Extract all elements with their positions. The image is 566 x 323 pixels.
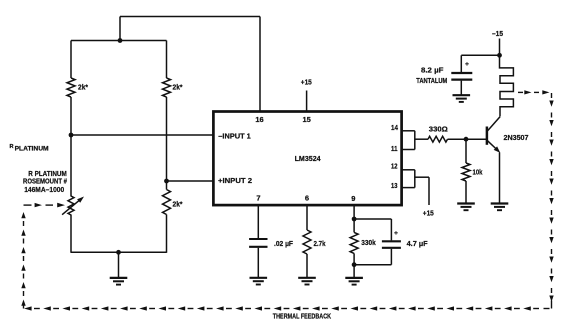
svg-text:+: + — [465, 61, 469, 68]
svg-text:7: 7 — [256, 194, 260, 203]
svg-text:THERMAL FEEDBACK: THERMAL FEEDBACK — [273, 313, 331, 320]
svg-text:2k*: 2k* — [78, 84, 88, 91]
svg-text:–INPUT 1: –INPUT 1 — [218, 132, 251, 141]
svg-text:14: 14 — [391, 123, 399, 132]
svg-text:13: 13 — [391, 181, 398, 190]
svg-text:8.2 µF: 8.2 µF — [421, 66, 444, 75]
svg-text:2k*: 2k* — [173, 201, 183, 208]
svg-text:–15: –15 — [492, 29, 503, 38]
svg-text:12: 12 — [391, 162, 398, 171]
svg-text:+INPUT 2: +INPUT 2 — [218, 176, 252, 185]
svg-text:16: 16 — [255, 115, 263, 124]
svg-text:4.7 µF: 4.7 µF — [407, 239, 429, 248]
svg-text:.02 µF: .02 µF — [274, 239, 294, 248]
svg-text:R: R — [10, 144, 14, 150]
svg-text:2k*: 2k* — [173, 84, 183, 91]
svg-text:2N3507: 2N3507 — [504, 133, 529, 142]
svg-text:330Ω: 330Ω — [429, 125, 448, 134]
svg-text:TANTALUM: TANTALUM — [416, 76, 447, 85]
svg-text:146MA–1000: 146MA–1000 — [24, 185, 64, 194]
svg-text:+: + — [394, 230, 398, 237]
svg-text:11: 11 — [391, 144, 398, 153]
svg-text:10k: 10k — [473, 167, 483, 176]
svg-text:330k: 330k — [361, 238, 376, 247]
svg-text:15: 15 — [303, 115, 311, 124]
svg-text:2.7k: 2.7k — [314, 239, 326, 248]
svg-text:LM3524: LM3524 — [295, 154, 321, 163]
svg-text:9: 9 — [351, 194, 355, 203]
svg-text:6: 6 — [305, 194, 309, 203]
svg-text:PLATINUM: PLATINUM — [15, 146, 50, 153]
svg-text:+15: +15 — [301, 77, 312, 86]
svg-text:+15: +15 — [423, 209, 434, 218]
